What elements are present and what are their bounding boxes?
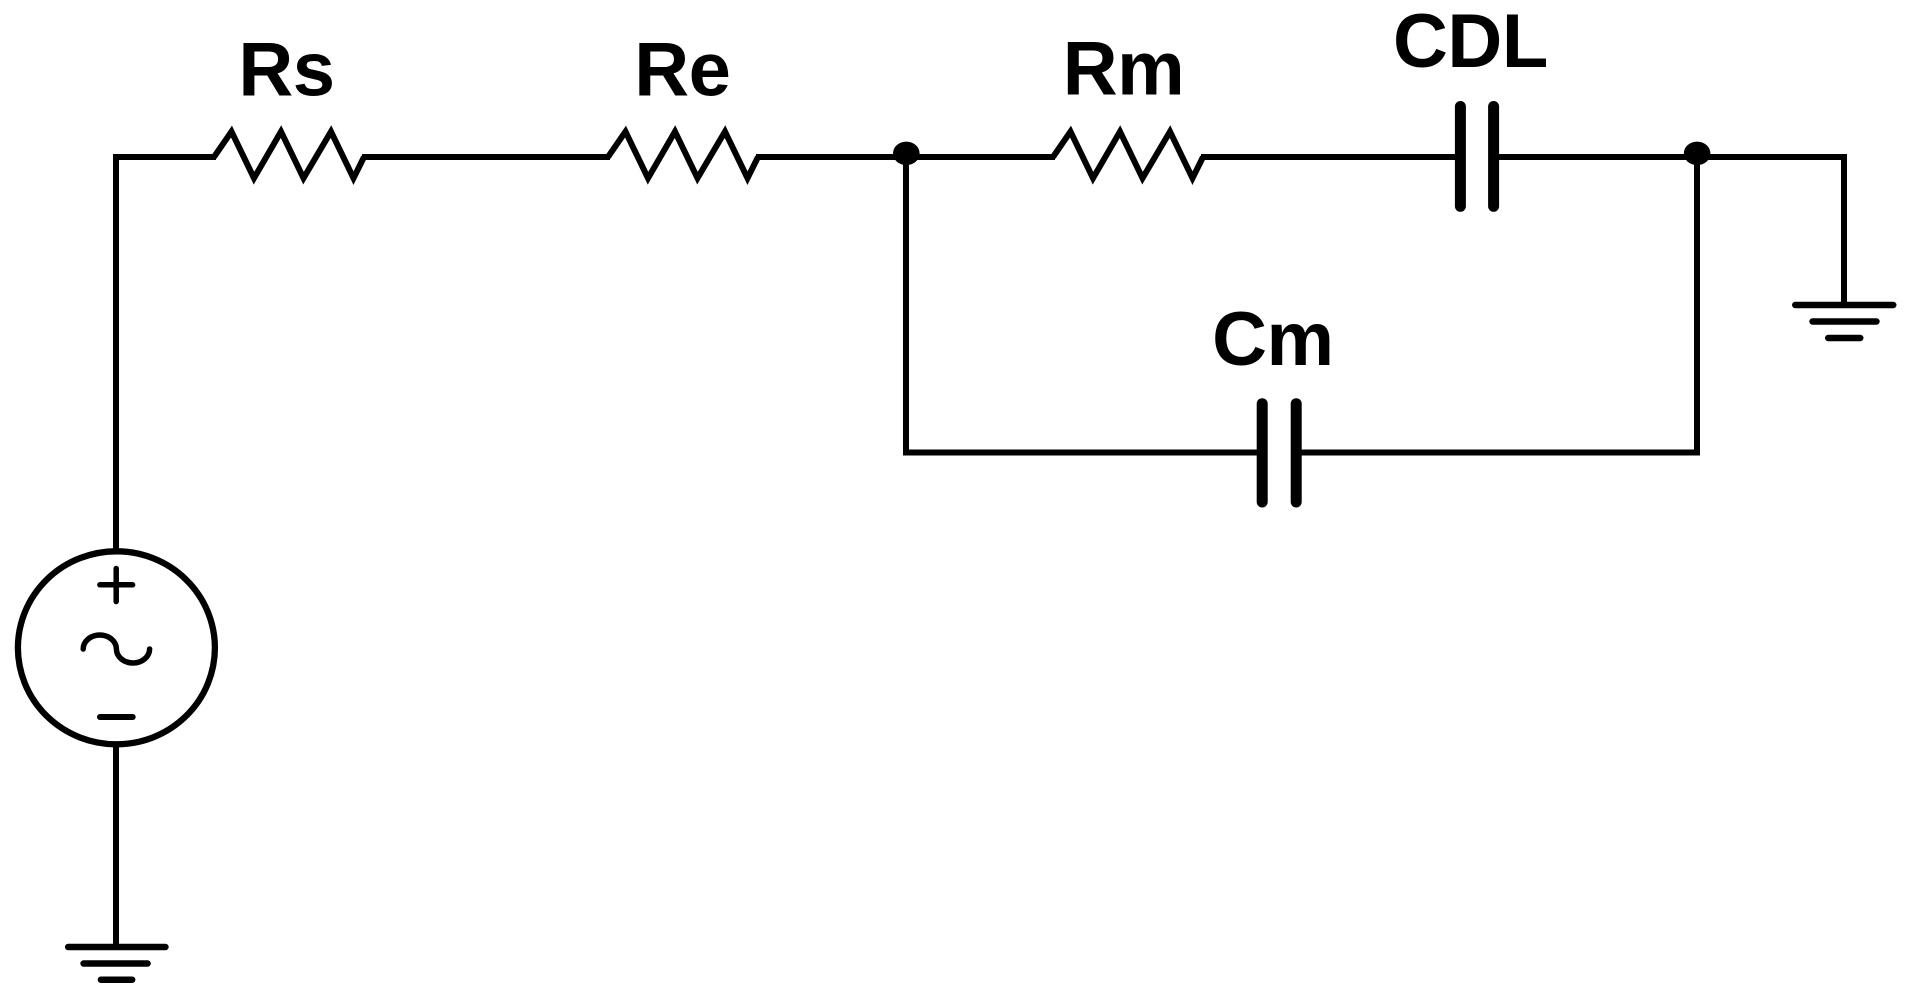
svg-text:Rs: Rs [238,28,334,113]
ground (bottom left) [68,947,165,980]
capacitor CDL [1460,107,1493,207]
plus sign of source [100,569,133,602]
wire bottom branch left (to Cm) [903,450,1258,456]
ground (right) [1795,305,1893,338]
svg-text:Rm: Rm [1063,27,1184,112]
resistor Re [608,132,758,179]
resistor Rs [214,132,364,179]
wire node A to Rm [906,154,1055,160]
AC source V1 circle [18,551,215,744]
wire node A down (left branch vertical) [903,157,909,456]
svg-text:Re: Re [634,27,730,112]
sine symbol of source [83,635,149,663]
wire node B to right corner [1697,154,1844,160]
wire source to bottom ground [113,744,119,947]
svg-text:Cm: Cm [1212,297,1333,382]
resistor Rm [1053,132,1203,179]
capacitor Cm [1262,404,1296,502]
node A junction dot [893,142,920,166]
wire top-left horizontal (source column to Rs) [116,154,216,160]
wire node B down (right branch vertical) [1694,157,1700,456]
wire Rm to capacitor CDL [1201,154,1458,160]
minus sign of source [100,714,133,720]
wire Re to node A [756,154,906,160]
wire left vertical (top wire down to source) [113,154,119,552]
wire right vertical down to ground [1841,154,1847,305]
wire CDL to node B [1496,154,1697,160]
wire Rs to Re [362,154,610,160]
node B junction dot [1684,142,1711,166]
wire bottom branch right (Cm to node B column) [1299,450,1700,456]
svg-text:CDL: CDL [1393,0,1548,84]
